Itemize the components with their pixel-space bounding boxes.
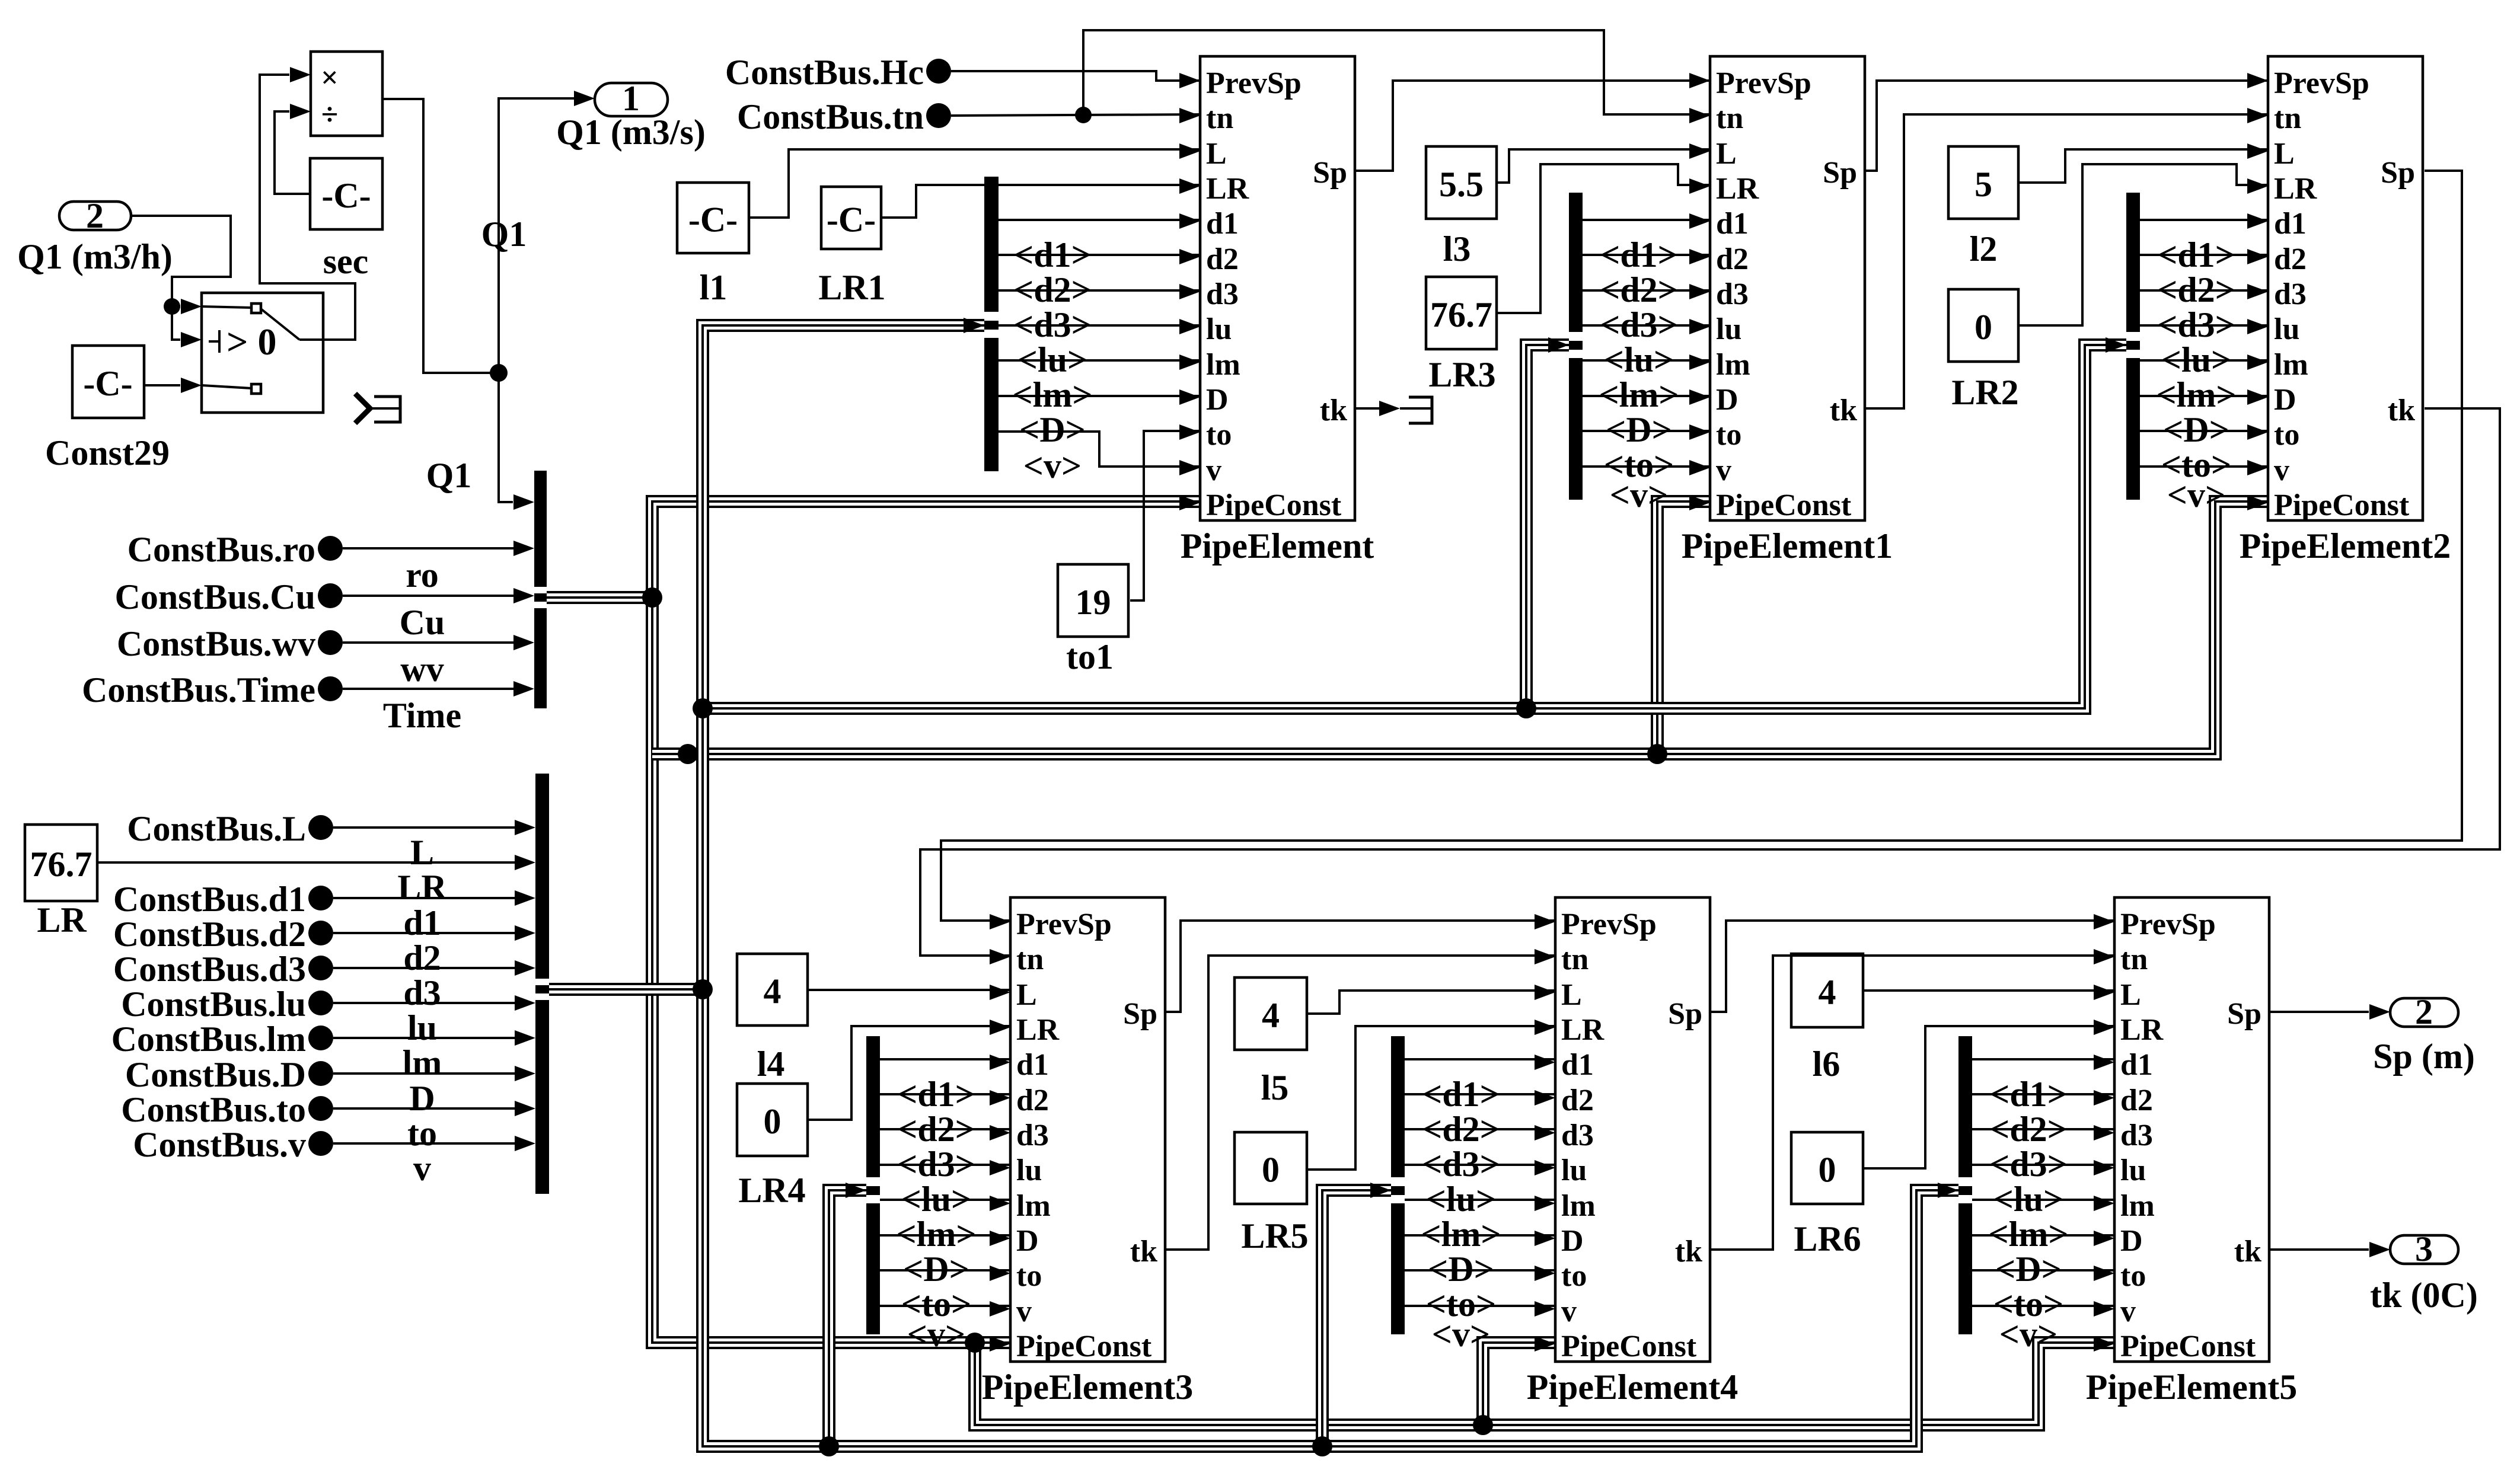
wire ConstBus.L to BusCreator2 [333, 826, 516, 829]
arrow LR into BusCreator2 [515, 855, 535, 870]
svg-text:<d2>: <d2> [897, 1110, 975, 1149]
wire ConstBus.Time to BusCreator1 [343, 688, 516, 690]
svg-text:5: 5 [1974, 165, 1992, 204]
svg-text:<lu>: <lu> [901, 1180, 971, 1219]
port dot ConstBus.L [308, 815, 333, 840]
svg-text:ConstBus.L: ConstBus.L [127, 809, 306, 848]
svg-text:d2: d2 [403, 938, 441, 977]
arrow bus into Selector3 [2106, 337, 2126, 353]
svg-text:tk (0C): tk (0C) [2370, 1276, 2478, 1315]
constant LR6 value 0 [1791, 1132, 1863, 1204]
bus selector Selector5 (8 outputs) [1391, 1036, 1555, 1354]
bus selector Selector2 (8 outputs) [1569, 193, 1710, 515]
svg-text:> 0: > 0 [227, 321, 276, 363]
svg-text:<d3>: <d3> [1600, 305, 1678, 344]
svg-text:lm: lm [403, 1043, 442, 1082]
constant LR4 value 0 [737, 1084, 808, 1156]
subsystem block PipeElement1 [1689, 56, 1865, 522]
svg-text:<D>: <D> [1428, 1250, 1494, 1289]
bus selector Selector1 (7 outputs) [984, 177, 1200, 485]
svg-text:PipeElement: PipeElement [1181, 526, 1374, 566]
arrow Q1 into BusCreator1 [513, 494, 534, 510]
node switch input junction [164, 298, 180, 315]
constant l2 value 5 [1948, 146, 2018, 219]
switch block [202, 293, 323, 413]
wire ConstBus.lm to BusCreator2 [333, 1037, 516, 1039]
svg-text:<d2>: <d2> [1989, 1110, 2068, 1149]
svg-text:PipeElement1: PipeElement1 [1682, 526, 1893, 566]
wire ConstBus.to to BusCreator2 [333, 1107, 516, 1110]
svg-text:0: 0 [1262, 1151, 1280, 1190]
wire PipeElement1 Sp to PipeElement2 PrevSp [1865, 81, 2268, 171]
node BusB riser sel4 [819, 1436, 839, 1456]
wire LR2 to PipeElement2 LR [2018, 164, 2268, 325]
wire LR3 to PipeElement1 LR [1497, 164, 1710, 313]
svg-text:<d3>: <d3> [2157, 305, 2235, 344]
svg-text:ConstBus.d1: ConstBus.d1 [113, 880, 306, 919]
wire PipeElement5 tk to outport 3 [2269, 1248, 2369, 1251]
svg-text:<d1>: <d1> [1989, 1075, 2068, 1114]
svg-text:×: × [321, 61, 339, 95]
constant to1 value 19 [1058, 564, 1128, 637]
arrow ConstBus.Time into BusCreator1 [513, 681, 534, 697]
svg-text:0: 0 [1974, 308, 1992, 347]
terminator block [1400, 407, 1432, 410]
constant LR3 value 76.7 [1426, 277, 1497, 349]
wire ConstBus.d2 to BusCreator2 [333, 932, 516, 934]
svg-text:76.7: 76.7 [1430, 295, 1492, 334]
svg-text:to: to [407, 1114, 437, 1153]
port dot ConstBus.wv [318, 630, 343, 655]
wire inport2 to switch [131, 216, 231, 306]
arrow lu into BusCreator2 [515, 995, 535, 1011]
subsystem block PipeElement5 [2094, 897, 2269, 1363]
subsystem block PipeElement2 [2247, 56, 2423, 522]
svg-text:<d1>: <d1> [1013, 235, 1092, 274]
svg-text:Q1: Q1 [481, 215, 527, 254]
svg-text:wv: wv [400, 650, 444, 689]
wire PipeElement4 tk to PipeElement5 tn [1710, 956, 2114, 1250]
port dot ConstBus.D [308, 1061, 333, 1086]
bus BusB riser to Selector5 [1322, 1190, 1391, 1446]
node BusA mid [678, 744, 698, 764]
svg-text:lu: lu [407, 1008, 437, 1047]
svg-text:-C-: -C- [321, 176, 371, 215]
port dot ConstBus.v [308, 1131, 333, 1156]
constant l1 value -C- [677, 183, 749, 253]
wire l4 to PipeElement3 L [808, 989, 1010, 991]
svg-text:ConstBus.v: ConstBus.v [133, 1125, 306, 1164]
svg-text:ConstBus.lm: ConstBus.lm [111, 1020, 306, 1059]
svg-text:Sp (m): Sp (m) [2373, 1037, 2475, 1076]
svg-text:sec: sec [323, 242, 369, 281]
wire switch output to product multiply input [260, 75, 355, 340]
svg-text:-C-: -C- [83, 364, 132, 403]
wire LR5 to PipeElement4 LR [1307, 1026, 1555, 1170]
wire ConstBus.D to BusCreator2 [333, 1072, 516, 1075]
bus selector Selector6 (8 outputs) [1958, 1036, 2114, 1354]
svg-text:ConstBus.to: ConstBus.to [121, 1090, 306, 1129]
svg-text:<lm>: <lm> [1988, 1215, 2068, 1254]
wire PipeElement tk to terminator [1355, 407, 1380, 410]
wire l1 to PipeElement L [749, 149, 1200, 218]
arrow into outport 2 [2369, 1004, 2390, 1020]
wire junction to switch control input [172, 306, 180, 340]
svg-text:<lm>: <lm> [2156, 375, 2236, 414]
svg-text:<d1>: <d1> [1422, 1075, 1500, 1114]
outport 2 oval [2390, 998, 2458, 1027]
node tn junction [1075, 107, 1092, 123]
svg-text:<v>: <v> [1023, 446, 1082, 485]
svg-text:ConstBus.Hc: ConstBus.Hc [725, 53, 924, 92]
bus selector Selector3 (8 outputs) [2126, 193, 2268, 515]
svg-text:v: v [413, 1149, 431, 1188]
bus BusB riser to Selector4 [829, 1190, 866, 1446]
svg-text:<d2>: <d2> [1422, 1110, 1500, 1149]
wire PipeElement1 tk to PipeElement2 tn [1865, 114, 2268, 408]
svg-text:<v>: <v> [907, 1315, 965, 1354]
arrow lm into BusCreator2 [515, 1030, 535, 1046]
svg-text:<lm>: <lm> [896, 1215, 976, 1254]
wire PipeElement2 tk to PipeElement3 tn [920, 408, 2500, 956]
bus creator 2 bar [535, 774, 549, 1194]
wire PipeElement4 Sp to PipeElement5 PrevSp [1710, 921, 2114, 1012]
svg-text:<D>: <D> [1995, 1250, 2062, 1289]
arrow switch input 2 [181, 332, 202, 347]
svg-text:<lu>: <lu> [2161, 340, 2231, 379]
svg-text:5.5: 5.5 [1439, 165, 1484, 204]
wire ConstBus.tn to PipeElement tn [951, 114, 1200, 116]
svg-text:to1: to1 [1066, 637, 1114, 676]
wire PipeElement Sp to PipeElement1 PrevSp [1355, 81, 1710, 171]
svg-text:Q1 (m3/s): Q1 (m3/s) [556, 113, 706, 152]
arrow bus into Selector6 [1938, 1183, 1958, 1198]
subsystem block PipeElement3 [990, 897, 1165, 1363]
svg-text:<v>: <v> [1610, 475, 1668, 515]
svg-text:19: 19 [1076, 583, 1111, 622]
wire to1 to PipeElement to [1130, 431, 1200, 600]
constant sec -C- [310, 158, 382, 229]
node BusB mid [693, 698, 713, 718]
svg-text:<d2>: <d2> [1013, 270, 1092, 309]
wire l6 to PipeElement5 L [1863, 989, 2114, 992]
node BusB riser sel5 [1312, 1436, 1332, 1456]
svg-text:ConstBus.Time: ConstBus.Time [82, 670, 315, 710]
svg-text:4: 4 [1819, 973, 1836, 1012]
arrow bus into Selector2 [1548, 337, 1569, 353]
bus BusA mid horizontal to PipeElement2 PipeConst [652, 501, 2268, 754]
svg-text:<d3>: <d3> [1422, 1145, 1500, 1184]
bus BusA trunk vertical and PipeConst feeds PipeElement PipeElement3 [652, 501, 1200, 1343]
switch internals [251, 303, 261, 313]
node product-output junction [490, 364, 508, 382]
svg-text:76.7: 76.7 [30, 845, 92, 884]
svg-text:0: 0 [764, 1102, 781, 1141]
wire PipeElement3 Sp to PipeElement4 PrevSp [1165, 921, 1555, 1012]
constant l4 value 4 [737, 954, 808, 1025]
svg-text:<d3>: <d3> [1013, 305, 1092, 344]
svg-text:<D>: <D> [1019, 410, 1086, 449]
svg-text:<lu>: <lu> [1017, 340, 1087, 379]
svg-text:<d1>: <d1> [897, 1075, 975, 1114]
svg-text:ro: ro [406, 555, 439, 595]
svg-text:PipeElement4: PipeElement4 [1527, 1368, 1739, 1407]
svg-text:<lm>: <lm> [1599, 375, 1679, 414]
arrow ConstBus.ro into BusCreator1 [513, 541, 534, 556]
svg-text:LR3: LR3 [1428, 355, 1495, 394]
constant l6 value 4 [1791, 954, 1863, 1027]
wire junction down to BusCreator1 [499, 373, 513, 502]
svg-text:<D>: <D> [2163, 410, 2229, 449]
svg-text:<d3>: <d3> [897, 1145, 975, 1184]
svg-text:l1: l1 [700, 268, 728, 307]
port dot ConstBus.lu [308, 991, 333, 1015]
svg-text:Time: Time [383, 696, 461, 735]
svg-text:<d1>: <d1> [2157, 235, 2235, 274]
wire l5 to PipeElement4 L [1307, 991, 1555, 1014]
bus BusA bottom run to PipeElement5 PipeConst [975, 1343, 2114, 1425]
svg-text:Q1 (m3/h): Q1 (m3/h) [17, 237, 173, 276]
arrow D into BusCreator2 [515, 1066, 535, 1081]
wire ConstBus.wv to BusCreator1 [343, 641, 516, 644]
port dot ConstBus.to [308, 1096, 333, 1121]
svg-text:ConstBus.tn: ConstBus.tn [737, 97, 924, 136]
svg-text:0: 0 [1819, 1151, 1836, 1190]
svg-text:l2: l2 [1970, 229, 1998, 269]
port dot ConstBus.ro [318, 536, 343, 561]
svg-text:4: 4 [764, 972, 781, 1011]
constant Const29 -C- [72, 346, 144, 418]
svg-text:<lm>: <lm> [1012, 375, 1092, 414]
outport 1 oval [595, 83, 668, 116]
bus BusB trunk to Selector1 and Selector6 [703, 325, 1958, 1446]
wire product output to junction [382, 99, 499, 373]
svg-text:d3: d3 [403, 973, 441, 1012]
svg-text:PipeElement3: PipeElement3 [982, 1368, 1194, 1407]
svg-text:<lm>: <lm> [1421, 1215, 1501, 1254]
wire l3 to PipeElement1 L [1497, 149, 1710, 183]
bus BusB from BusCreator2 output [547, 983, 703, 996]
bus BusA riser to PipeElement1 PipeConst [1657, 501, 1710, 754]
svg-text:ConstBus.wv: ConstBus.wv [117, 624, 315, 663]
arrow bus into Selector1 [964, 318, 984, 333]
subsystem block PipeElement [1179, 56, 1355, 522]
svg-text:LR1: LR1 [818, 268, 885, 307]
product input 2 arrow [290, 104, 311, 119]
bus BusA riser to PipeElement4 PipeConst [1483, 1343, 1555, 1425]
bus BusB riser to Selector2 [1526, 345, 1569, 708]
constant LR 76.7 [25, 825, 97, 901]
outport 3 oval [2390, 1235, 2458, 1264]
svg-text:Const29: Const29 [45, 433, 170, 472]
wire sec output to product divide input [275, 111, 310, 194]
svg-text:ConstBus.lu: ConstBus.lu [121, 985, 306, 1024]
svg-text:Cu: Cu [400, 603, 445, 642]
wire LR6 to PipeElement5 LR [1863, 1026, 2114, 1168]
arrow bus into Selector4 [846, 1183, 866, 1198]
wire ConstBus.Cu to BusCreator1 [343, 595, 516, 597]
arrow L into BusCreator2 [515, 820, 535, 835]
bus creator 1 bar [534, 471, 547, 708]
port dot ConstBus.Cu [318, 583, 343, 608]
node BusA riser PE1 [1647, 744, 1667, 764]
wire LR4 to PipeElement3 LR [808, 1026, 1010, 1120]
bus selector Selector4 (8 outputs) [866, 1036, 1010, 1354]
wire ConstBus.lu to BusCreator2 [333, 1002, 516, 1004]
svg-text:Q1: Q1 [426, 456, 472, 495]
node BusA riser PE4 [1473, 1415, 1493, 1435]
port dot ConstBus.tn [926, 103, 951, 128]
constant LR2 value 0 [1948, 289, 2018, 362]
wire tn to PipeElement1 tn [1083, 30, 1710, 115]
arrow v into BusCreator2 [515, 1136, 535, 1151]
product input 1 arrow [290, 67, 311, 82]
constant LR5 value 0 [1235, 1132, 1307, 1204]
goto tag symbol [355, 394, 370, 423]
wire ConstBus.ro to BusCreator1 [343, 547, 516, 549]
svg-text:LR2: LR2 [1951, 373, 2018, 412]
svg-text:d1: d1 [403, 903, 441, 943]
arrow d1 into BusCreator2 [515, 890, 535, 906]
port dot ConstBus.Time [318, 676, 343, 701]
svg-text:l5: l5 [1261, 1068, 1289, 1107]
svg-text:2: 2 [86, 196, 104, 235]
svg-text:ConstBus.ro: ConstBus.ro [127, 530, 315, 569]
svg-text:-C-: -C- [688, 200, 738, 239]
svg-text:l4: l4 [757, 1044, 785, 1084]
svg-text:<v>: <v> [1432, 1315, 1490, 1354]
svg-text:LR: LR [397, 868, 447, 907]
inport 2 oval [59, 202, 131, 230]
port dot ConstBus.d3 [308, 956, 333, 980]
wire PipeElement3 tk to PipeElement4 tn [1165, 956, 1555, 1250]
svg-text:LR5: LR5 [1241, 1216, 1308, 1255]
svg-text:<v>: <v> [2167, 475, 2225, 515]
wire PipeElement2 Sp to PipeElement3 PrevSp [941, 171, 2462, 921]
constant LR1 value -C- [821, 187, 881, 249]
product block Q1 divide [311, 52, 382, 136]
svg-text:l6: l6 [1813, 1044, 1840, 1084]
svg-text:LR6: LR6 [1794, 1219, 1861, 1258]
svg-text:PipeElement2: PipeElement2 [2240, 526, 2451, 566]
svg-text:<d2>: <d2> [1600, 270, 1678, 309]
svg-text:LR: LR [37, 900, 87, 940]
bus BusA from BusCreator1 output [547, 591, 652, 604]
svg-text:PipeElement5: PipeElement5 [2086, 1368, 2298, 1407]
svg-text:ConstBus.D: ConstBus.D [125, 1055, 306, 1094]
arrow switch input 1 [181, 299, 202, 314]
arrow into outport 1 [574, 91, 595, 106]
node BusA at PE3 [965, 1333, 985, 1353]
constant l5 value 4 [1235, 977, 1307, 1050]
wire ConstBus.v to BusCreator2 [333, 1142, 516, 1145]
wire l2 to PipeElement2 L [2018, 149, 2268, 183]
svg-text:3: 3 [2415, 1229, 2433, 1269]
svg-text:ConstBus.Cu: ConstBus.Cu [115, 577, 315, 616]
port dot ConstBus.d2 [308, 921, 333, 945]
svg-text:L: L [410, 833, 434, 872]
svg-text:<d1>: <d1> [1600, 235, 1678, 274]
wire PipeElement5 Sp to outport 2 [2269, 1011, 2369, 1013]
svg-text:D: D [409, 1079, 435, 1118]
svg-text:4: 4 [1262, 996, 1280, 1035]
node BusB at creator2 [693, 979, 713, 999]
arrow d2 into BusCreator2 [515, 925, 535, 941]
bus BusB mid horizontal to Selector3 [703, 345, 2126, 708]
arrow ConstBus.Cu into BusCreator1 [513, 588, 534, 603]
wire ConstBus.d3 to BusCreator2 [333, 967, 516, 969]
arrow into outport 3 [2369, 1242, 2390, 1257]
subsystem block PipeElement4 [1535, 897, 1710, 1363]
svg-text:<lu>: <lu> [1604, 340, 1674, 379]
svg-text:<D>: <D> [1606, 410, 1672, 449]
svg-text:<D>: <D> [903, 1250, 969, 1289]
port dot ConstBus.Hc [926, 59, 951, 84]
svg-text:ConstBus.d3: ConstBus.d3 [113, 950, 306, 989]
svg-text:÷: ÷ [321, 98, 339, 132]
wire LR1 to PipeElement LR [881, 185, 1200, 218]
svg-text:<d3>: <d3> [1989, 1145, 2068, 1184]
svg-text:ConstBus.d2: ConstBus.d2 [113, 915, 306, 954]
svg-text:<v>: <v> [1999, 1315, 2058, 1354]
arrow to into BusCreator2 [515, 1101, 535, 1116]
svg-text:<d2>: <d2> [2157, 270, 2235, 309]
node BusB riser sel2 [1516, 698, 1536, 718]
wire junction up to outport 1 [499, 98, 576, 373]
svg-text:LR4: LR4 [738, 1171, 805, 1210]
svg-text:<lu>: <lu> [1426, 1180, 1496, 1219]
port dot ConstBus.d1 [308, 886, 333, 910]
svg-text:l3: l3 [1443, 229, 1471, 269]
wire ConstBus.Hc to PipeElement PrevSp [951, 71, 1200, 81]
wire ConstBus.d1 to BusCreator2 [333, 897, 516, 899]
arrow d3 into BusCreator2 [515, 960, 535, 976]
arrow into terminator [1379, 401, 1400, 416]
arrow ConstBus.wv into BusCreator1 [513, 635, 534, 650]
arrow bus into Selector5 [1370, 1183, 1391, 1198]
arrow switch input 3 [181, 378, 202, 393]
port dot ConstBus.lm [308, 1025, 333, 1050]
wire Const29 to switch input 3 [144, 384, 180, 386]
node BusA at creator1 [642, 587, 662, 608]
svg-text:2: 2 [2415, 992, 2433, 1031]
constant l3 value 5.5 [1426, 146, 1497, 219]
svg-text:-C-: -C- [827, 200, 876, 239]
wire LR constant to BusCreator2 [97, 861, 516, 864]
svg-text:<lu>: <lu> [1993, 1180, 2063, 1219]
